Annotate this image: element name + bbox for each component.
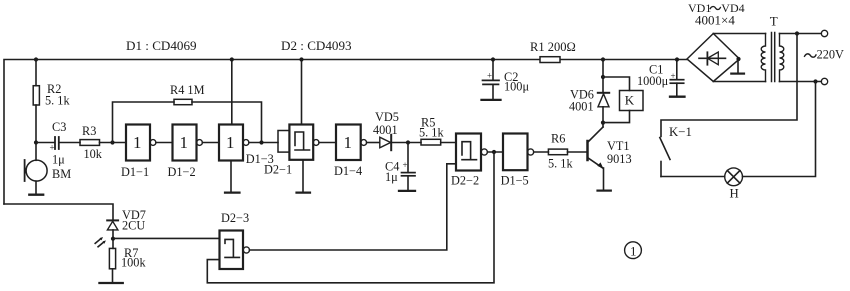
wire D1-4 to VD5 [367, 142, 379, 144]
node: VD7/R7 junction [111, 237, 115, 241]
wire: D2-2 output to D2-3 input (bottom loop) [207, 152, 494, 283]
node: bridge right corner [736, 57, 740, 61]
svg-text:4001: 4001 [373, 123, 398, 137]
svg-text:R3: R3 [82, 124, 96, 138]
inverter D1-3 [219, 125, 274, 167]
wire: rail drop to D2-1 top [301, 60, 303, 125]
wire: rail drop to D1-3 top [231, 60, 233, 125]
svg-text:H: H [730, 187, 739, 201]
node: junction secondary bottom [813, 79, 817, 83]
microphone BM [25, 143, 72, 182]
svg-text:10k: 10k [84, 147, 103, 161]
relay K [603, 77, 643, 123]
node: relay top junction [601, 75, 605, 79]
svg-text:5. 1k: 5. 1k [419, 125, 444, 139]
nand D2-1 input bracket [278, 131, 289, 153]
svg-text:D1 : CD4069: D1 : CD4069 [126, 38, 197, 53]
wire D1-3 to D2-1 [249, 142, 278, 144]
svg-text:D2−2: D2−2 [451, 173, 479, 187]
inverter D1-2 [168, 125, 203, 180]
svg-text:+: + [487, 71, 492, 81]
transistor VT1 [588, 127, 632, 169]
ground: VT1 emitter [598, 168, 611, 191]
wire: K-1 to lamp [661, 176, 725, 178]
node: rail junction C1 [675, 57, 679, 61]
ground: below D1-3 [225, 161, 240, 193]
node: feedback junction at D1-3 output [259, 140, 263, 144]
resistor R6 [534, 132, 587, 171]
svg-text:1: 1 [344, 133, 353, 152]
ground: below C4 [399, 190, 415, 192]
wire: secondary top to terminal [780, 33, 822, 35]
node: rail junction at D1-3 drop [230, 57, 234, 61]
svg-text:2CU: 2CU [122, 218, 145, 232]
wire D1-1 to D1-2 [156, 142, 173, 144]
wire: VD7 junction to D2-3 [113, 237, 220, 239]
svg-text:100μ: 100μ [504, 80, 529, 94]
node: junction R2/C3/BM [34, 140, 38, 144]
bridge rectifier VD1-VD4 [687, 1, 745, 82]
diode VD6 [569, 60, 609, 128]
svg-text:D2−3: D2−3 [221, 211, 249, 225]
capacitor C2 [483, 60, 530, 100]
node: relay bottom junction [601, 121, 605, 125]
svg-text:5. 1k: 5. 1k [548, 157, 573, 171]
node: D1-1 input junction [110, 140, 114, 144]
svg-text:C3: C3 [52, 120, 66, 134]
terminal: mains top [821, 30, 827, 36]
svg-text:1μ: 1μ [385, 170, 398, 184]
capacitor C1 [637, 60, 684, 96]
svg-text:1μ: 1μ [52, 153, 65, 167]
svg-text:D1−1: D1−1 [121, 165, 149, 179]
svg-text:R6: R6 [551, 132, 565, 146]
resistor R5 [419, 116, 456, 146]
ground: below C1 [670, 96, 685, 98]
svg-text:4001×4: 4001×4 [695, 13, 735, 28]
resistor R7 [109, 246, 146, 282]
switch K-1 [660, 125, 692, 177]
svg-text:D1−4: D1−4 [334, 164, 362, 178]
svg-text:T: T [770, 13, 778, 28]
svg-text:D2−1: D2−1 [264, 163, 292, 177]
capacitor C3 [36, 120, 80, 167]
wire D2-1 to D1-4 [319, 142, 336, 144]
resistor R1 [530, 40, 576, 63]
resistor R3 [80, 124, 126, 161]
ground: below R7 [99, 282, 122, 284]
lamp H [725, 168, 743, 201]
nand D2-3 [220, 211, 250, 269]
capacitor C4 [385, 143, 415, 191]
wire: secondary bottom to terminal [780, 81, 822, 83]
wire: left rail to VD7 [4, 204, 113, 220]
ground: bridge [731, 59, 744, 74]
photodiode VD7 [107, 208, 146, 248]
nand D2-1 [264, 125, 319, 177]
diode VD5 [373, 110, 421, 150]
svg-text:1: 1 [180, 133, 189, 152]
wire D1-2 to D1-3 [202, 142, 219, 144]
svg-text:VT1: VT1 [607, 139, 630, 153]
inverter D1-1 [121, 125, 156, 180]
wire: mains drop to K-1 loop [661, 34, 797, 137]
svg-text:D1−5: D1−5 [501, 173, 529, 187]
svg-text:D2 : CD4093: D2 : CD4093 [281, 38, 352, 53]
svg-text:1: 1 [630, 244, 637, 259]
label ~220V [805, 54, 817, 57]
svg-text:K−1: K−1 [669, 125, 692, 139]
svg-text:+: + [50, 143, 55, 153]
svg-text:100k: 100k [121, 255, 146, 269]
ground: below BM [29, 181, 43, 195]
wire: lamp to mains bottom [743, 82, 816, 177]
svg-text:4001: 4001 [569, 99, 594, 113]
light arrows into VD7 [95, 237, 106, 247]
resistor R2 [33, 60, 70, 143]
svg-text:1000μ: 1000μ [637, 74, 669, 88]
node: rail junction VD6 [601, 57, 605, 61]
terminal: mains bottom [821, 78, 827, 84]
svg-text:R4 1M: R4 1M [170, 83, 205, 97]
node: rail junction at D2-1 drop [299, 57, 303, 61]
node: D2-2 output junction [492, 150, 496, 154]
svg-text:K: K [625, 93, 635, 108]
node: VD5/C4/R5 junction [406, 140, 410, 144]
svg-text:9013: 9013 [607, 152, 632, 166]
svg-text:R1 200Ω: R1 200Ω [530, 40, 576, 54]
transformer T [713, 13, 784, 81]
resistor R4 feedback [113, 83, 262, 143]
svg-text:+: + [671, 71, 676, 81]
wire: D2-3 output to D2-2 input [250, 164, 457, 250]
node: rail junction C2 [491, 57, 495, 61]
inverter D1-4 [334, 125, 367, 179]
svg-text:D1−2: D1−2 [168, 165, 196, 179]
nand D2-2 [451, 134, 487, 188]
wire: top VDD rail [4, 60, 687, 205]
wire D2-2 to D1-5 [487, 151, 503, 153]
svg-text:1: 1 [133, 133, 142, 152]
ground: below C2 [482, 99, 501, 101]
svg-text:1: 1 [226, 133, 235, 152]
svg-text:+: + [403, 160, 408, 170]
node: rail junction R2 [34, 57, 38, 61]
svg-text:VD5: VD5 [375, 110, 399, 124]
svg-text:5. 1k: 5. 1k [45, 94, 70, 108]
ground: below D2-1 [297, 160, 311, 193]
svg-text:220V: 220V [817, 48, 844, 62]
inverter D1-5 [501, 134, 534, 188]
node: junction secondary top [795, 31, 799, 35]
label circled 1 [625, 242, 642, 259]
svg-text:BM: BM [52, 167, 71, 181]
